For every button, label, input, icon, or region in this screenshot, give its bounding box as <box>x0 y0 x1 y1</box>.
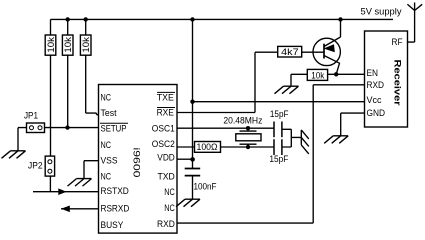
svg-text:15pF: 15pF <box>270 109 289 119</box>
svg-text:10k: 10k <box>46 37 56 53</box>
svg-text:OSC2: OSC2 <box>152 139 175 149</box>
svg-text:EN: EN <box>367 68 379 78</box>
svg-text:RF: RF <box>392 37 403 47</box>
svg-text:NC: NC <box>101 171 112 181</box>
svg-text:NC: NC <box>164 203 175 213</box>
svg-text:15pF: 15pF <box>269 154 288 164</box>
svg-text:TXD: TXD <box>158 171 176 181</box>
svg-text:10k: 10k <box>63 37 73 53</box>
svg-text:100Ω: 100Ω <box>197 142 218 152</box>
svg-text:Receiver: Receiver <box>393 60 403 107</box>
svg-text:4k7: 4k7 <box>281 47 298 57</box>
svg-text:RSRXD: RSRXD <box>101 204 130 214</box>
svg-text:Vcc: Vcc <box>367 95 382 105</box>
svg-text:RSTXD: RSTXD <box>101 186 130 196</box>
svg-text:TXE: TXE <box>157 92 174 102</box>
svg-text:i9600: i9600 <box>132 148 142 178</box>
svg-text:NC: NC <box>164 187 175 197</box>
svg-text:RXE: RXE <box>157 108 174 118</box>
svg-text:JP1: JP1 <box>24 111 38 121</box>
svg-text:VSS: VSS <box>101 156 118 166</box>
svg-text:Test: Test <box>101 108 117 118</box>
svg-text:10k: 10k <box>311 70 324 80</box>
svg-text:NC: NC <box>101 140 112 150</box>
svg-text:GND: GND <box>367 108 386 118</box>
svg-text:SETUP: SETUP <box>101 123 127 133</box>
svg-text:RXD: RXD <box>157 219 175 229</box>
svg-text:BUSY: BUSY <box>101 220 124 230</box>
svg-text:JP2: JP2 <box>28 160 43 170</box>
svg-text:100nF: 100nF <box>194 181 217 191</box>
svg-text:10k: 10k <box>81 37 91 53</box>
svg-text:NC: NC <box>101 92 112 102</box>
svg-text:VDD: VDD <box>157 152 175 162</box>
svg-text:RXD: RXD <box>367 80 385 90</box>
svg-text:OSC1: OSC1 <box>152 123 175 133</box>
svg-text:20.48MHz: 20.48MHz <box>223 115 262 125</box>
svg-text:5V supply: 5V supply <box>361 7 403 17</box>
